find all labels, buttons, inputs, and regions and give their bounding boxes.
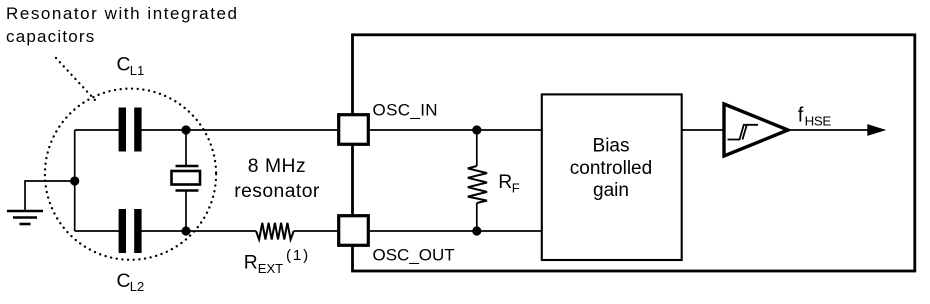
wire: amplifier output [788, 129, 872, 131]
svg-text:Resonator with integrated: Resonator with integrated [6, 4, 238, 23]
svg-text:resonator: resonator [234, 181, 320, 202]
svg-text:L2: L2 [130, 279, 144, 294]
svg-text:F: F [512, 181, 520, 196]
resistor RF (zigzag) [468, 166, 487, 203]
wire: REXT to OSC_OUT pad [294, 230, 338, 232]
chip boundary box [353, 35, 915, 271]
svg-text:HSE: HSE [805, 114, 832, 129]
hysteresis symbol [728, 125, 759, 140]
wire: top left (rail to CL1) [75, 129, 119, 131]
svg-text:capacitors: capacitors [6, 27, 95, 46]
svg-text:L1: L1 [130, 63, 144, 78]
svg-text:C: C [117, 55, 131, 76]
svg-text:R: R [498, 172, 512, 193]
svg-text:OSC_OUT: OSC_OUT [373, 246, 455, 265]
node: junction bottom (CL2/crystal) [181, 226, 190, 235]
wire: ground stub [25, 181, 75, 211]
wire: CL1 to OSC_IN pad [141, 129, 340, 131]
wire: bias box to amplifier [682, 129, 723, 131]
svg-text:OSC_IN: OSC_IN [373, 100, 438, 119]
svg-text:gain: gain [593, 180, 629, 201]
wire: bottom left (rail to CL2) [75, 230, 119, 232]
arrowhead output [867, 124, 886, 136]
svg-text:R: R [244, 253, 258, 274]
capacitor CL2 [119, 209, 142, 253]
crystal X1 [172, 166, 201, 191]
pin pad OSC_IN [339, 115, 369, 145]
label CL1 [117, 55, 145, 79]
svg-text:C: C [117, 271, 131, 292]
ground symbol [7, 211, 43, 224]
node: junction RF bottom [472, 226, 481, 235]
svg-text:f: f [798, 105, 804, 127]
resistor RF vertical wires [476, 130, 478, 166]
node: junction left rail (ground) [70, 176, 79, 185]
label fHSE [798, 105, 832, 129]
pin pad OSC_OUT [339, 216, 369, 246]
wire: OSC_IN pad to bias box [368, 129, 542, 131]
resistor REXT (zigzag) [256, 223, 294, 240]
crystal X1 vertical wires [185, 130, 187, 166]
node: junction RF top [472, 125, 481, 134]
label RF [498, 172, 520, 196]
leader dotted line [56, 58, 95, 100]
note text: Resonator with integrated capacitors [6, 4, 238, 46]
label: 8 MHz resonator [234, 156, 320, 202]
op-amp U1 (schmitt buffer triangle) [724, 104, 788, 156]
svg-text:(1): (1) [286, 247, 310, 264]
bias controlled gain box [542, 94, 682, 260]
node: junction top (CL1/crystal) [181, 125, 190, 134]
dotted circle (resonator boundary) [45, 89, 216, 260]
wire: CL2 to REXT [141, 230, 256, 232]
wire: OSC_OUT pad to bias box [368, 230, 542, 232]
svg-text:controlled: controlled [570, 158, 652, 179]
label CL2 [117, 271, 145, 294]
label REXT (1) [244, 247, 310, 276]
capacitor CL1 [119, 108, 142, 152]
label: Bias controlled gain [570, 136, 652, 202]
svg-text:EXT: EXT [258, 261, 283, 276]
svg-text:8 MHz: 8 MHz [248, 156, 306, 177]
svg-text:Bias: Bias [593, 136, 630, 157]
wire: left rail [74, 130, 76, 231]
